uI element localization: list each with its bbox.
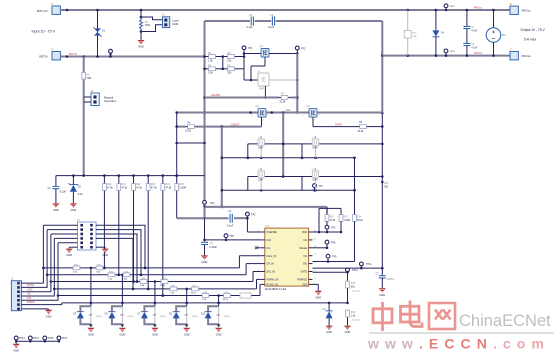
wire TVS row [219, 302, 348, 305]
transistor Q7 DNP [258, 71, 270, 91]
svg-text:(DNP): (DNP) [128, 316, 134, 318]
wire J5 fanout [21, 225, 77, 304]
test point TP11 [360, 262, 373, 268]
wire pin11 row PWRGD [313, 267, 384, 270]
test point TP2 on input rail [109, 49, 113, 58]
connector J4 shunt header [77, 219, 96, 250]
svg-text:GND: GND [88, 332, 94, 336]
diode D9 clamp 24V [169, 289, 198, 328]
ground below C9 [52, 203, 59, 212]
wire signal row CHG [43, 267, 239, 270]
svg-text:VDD: VDD [302, 230, 308, 234]
svg-text:750k: 750k [145, 24, 151, 27]
resistor R30 1.0k [73, 265, 80, 274]
wire signal row PCHG [58, 293, 260, 298]
wire TP4 row to divider [205, 207, 328, 215]
svg-text:TP4: TP4 [210, 202, 215, 205]
wire Q3 gate drop [313, 117, 358, 127]
resistor R9 51k [226, 65, 244, 75]
connector J3 Load GND [162, 14, 179, 28]
svg-text:0.1µF: 0.1µF [227, 225, 234, 228]
svg-text:VSS: VSS [302, 283, 307, 287]
svg-text:PCHG: PCHG [27, 284, 34, 287]
svg-text:56.2k: 56.2k [223, 299, 229, 301]
test point TP13 bottom [444, 49, 455, 56]
test point TP12 top [444, 4, 455, 10]
ground below VSS [315, 291, 322, 300]
svg-text:GND: GND [102, 253, 108, 257]
svg-text:R15: R15 [351, 283, 356, 285]
connector J6 PAOut+ [509, 3, 530, 15]
resistor R21 pull-up [117, 176, 128, 277]
svg-text:SI2114EDS-T1-E3: SI2114EDS-T1-E3 [265, 287, 287, 291]
wire Q7 row [244, 79, 258, 81]
diode D2 zener 6.2V [69, 176, 84, 204]
svg-text:GND: GND [202, 260, 208, 264]
svg-text:DNP: DNP [258, 147, 263, 150]
svg-text:NC: NC [303, 254, 307, 258]
resistor R25 divider top [175, 176, 186, 219]
wire R2 to J3 loop [141, 17, 163, 32]
svg-text:IUL: IUL [266, 246, 271, 250]
resistor R5 1.0k [205, 52, 227, 62]
svg-text:SIU: SIU [303, 262, 307, 266]
test point TP10 [346, 268, 359, 274]
resistor R8 51.0k gate [358, 121, 369, 133]
wire sense tap vertical [175, 113, 178, 177]
ground J4 left [66, 249, 73, 258]
wire manual-operation vertical bus [83, 57, 85, 176]
svg-text:P1: P1 [503, 33, 507, 37]
wire Q1 to TP2b [269, 52, 299, 55]
resistor R7 51.0k [279, 92, 290, 103]
node Q3 pin marks [303, 115, 321, 122]
node pin3 no-connect [255, 246, 261, 249]
svg-text:TP13: TP13 [450, 51, 456, 53]
diode D4 [432, 10, 444, 56]
svg-text:TP1: TP1 [248, 47, 253, 50]
svg-text:PAOut: PAOut [474, 6, 482, 10]
capacitor C14 DNP [312, 168, 318, 191]
resistor R3 750k [82, 73, 92, 81]
svg-text:CP_IN: CP_IN [266, 262, 274, 266]
ground below D6 [119, 328, 126, 337]
svg-text:47.5k: 47.5k [107, 186, 114, 189]
svg-text:51.0k: 51.0k [280, 101, 287, 104]
wire pin12 row [313, 260, 355, 263]
svg-text:(6 posit): (6 posit) [352, 289, 360, 292]
capacitor C12 DNP [258, 168, 264, 191]
ground below TP row [13, 344, 20, 353]
resistor R31 562 [96, 265, 103, 274]
ground GND below R2 [137, 40, 144, 49]
wire top input rail [60, 9, 510, 12]
svg-text:DIS: DIS [27, 297, 32, 300]
svg-text:GATE: GATE [335, 122, 342, 126]
diode D1 TVS [94, 9, 106, 57]
wire pin16 row [313, 231, 343, 234]
test point TP7 on snubber row [313, 184, 324, 192]
svg-text:Output 10 - 75 V: Output 10 - 75 V [521, 28, 546, 32]
wire power path mid [266, 111, 309, 114]
transistor Q1 [260, 45, 270, 57]
svg-text:1.0k: 1.0k [208, 59, 213, 62]
svg-text:TP11: TP11 [366, 263, 372, 266]
wire output bottom rail [382, 54, 510, 57]
svg-text:D10: D10 [201, 312, 206, 315]
wire power path left [175, 111, 258, 114]
svg-text:w w w . E C C N . c o m: w w w . E C C N . c o m [367, 336, 545, 352]
wire pin6 riser [253, 272, 261, 282]
svg-text:24V: 24V [153, 314, 157, 316]
resistor R36 1.0k [170, 286, 177, 295]
svg-text:GND: GND [13, 348, 19, 352]
wire right feed vertical thin [381, 113, 389, 268]
resistor R38 1.0k [202, 292, 209, 301]
resistor R6 51k [226, 52, 245, 62]
svg-text:GND: GND [315, 295, 321, 299]
wire Q2 gate drop [261, 117, 263, 127]
wire gate to vertical [368, 125, 384, 128]
connector J7 PAOut- [509, 48, 531, 60]
wire signal row DIS [47, 274, 246, 277]
resistor R15 51k [346, 272, 361, 304]
svg-text:GND: GND [345, 330, 351, 334]
svg-text:24V: 24V [120, 314, 124, 316]
resistor R33 562 [123, 272, 130, 281]
svg-text:GND: GND [216, 332, 222, 336]
ground below C7 [379, 288, 386, 297]
svg-text:TP3: TP3 [251, 213, 256, 216]
svg-text:TP8: TP8 [331, 241, 336, 244]
svg-text:R12: R12 [384, 183, 389, 185]
svg-text:47.5k: 47.5k [121, 186, 128, 189]
wire gate-supply rail [205, 20, 383, 22]
test point TP6 [325, 225, 336, 233]
svg-text:3300pF: 3300pF [386, 279, 394, 281]
resistor R11 divider [339, 215, 350, 232]
wire pin10 row [313, 271, 348, 273]
svg-text:24V: 24V [216, 314, 220, 316]
resistor R37 56.2k [191, 286, 199, 295]
svg-text:U1: U1 [266, 224, 270, 228]
wire Q1 gate row [244, 54, 261, 81]
svg-text:DIS_IN: DIS_IN [266, 270, 274, 274]
svg-text:BAT-N: BAT-N [69, 52, 77, 56]
svg-text:PCHG_IN: PCHG_IN [266, 283, 278, 287]
node J5 net labels [27, 284, 35, 304]
svg-text:MGate: MGate [299, 246, 307, 250]
svg-text:TP7: TP7 [319, 185, 324, 188]
svg-text:VSENSE: VSENSE [266, 230, 277, 234]
svg-text:GND: GND [71, 208, 77, 212]
ground below C5 [201, 255, 208, 264]
wire snubber row 3 [248, 175, 384, 190]
connector J1 BAT+ [37, 3, 60, 14]
svg-text:TP9: TP9 [332, 256, 337, 259]
svg-text:56.2k: 56.2k [191, 293, 197, 295]
wire VDD drop to C5 [203, 218, 206, 241]
wire HGATE bus [205, 97, 298, 99]
svg-text:6.2V: 6.2V [78, 193, 83, 196]
wire signal row IUL [51, 280, 253, 283]
connector J8 Manual Operation [84, 90, 117, 106]
diode D5 clamp 24V [73, 268, 102, 328]
test point TP7 [325, 240, 336, 248]
wire J4 pin wires [96, 225, 146, 290]
wire CSOUT row [196, 125, 262, 128]
capacitor C11 DNP [312, 136, 318, 158]
svg-text:47.5k: 47.5k [165, 186, 172, 189]
test point TP5 [224, 234, 234, 240]
svg-text:56.2k: 56.2k [357, 220, 363, 222]
svg-text:ChinaECNet: ChinaECNet [459, 312, 551, 330]
connector J2 RETN [39, 49, 60, 60]
svg-text:GND: GND [46, 314, 52, 318]
svg-text:GND: GND [326, 330, 332, 334]
test point TP3 [246, 212, 257, 219]
test point TP2b [295, 46, 306, 53]
resistor R2 [140, 9, 151, 40]
resistor R16 1.0k [346, 310, 361, 326]
test point row TP14-TP17 [14, 336, 68, 344]
svg-text:GND: GND [172, 22, 178, 26]
svg-text:BAT+IN: BAT+IN [37, 9, 47, 13]
wire signal row aux [62, 302, 220, 305]
svg-text:(DNP): (DNP) [160, 316, 166, 318]
svg-text:750k: 750k [86, 78, 92, 80]
svg-text:GND: GND [138, 45, 144, 49]
resistor R10 divider [325, 215, 336, 226]
capacitor C10 DNP [258, 136, 264, 158]
wire pin7 riser [257, 279, 261, 289]
wire HGATE vertical [296, 54, 299, 114]
ground below D5 [87, 328, 94, 337]
wire J4 left ground stub [69, 247, 77, 248]
wire pin14 row [313, 247, 329, 250]
svg-text:TP5: TP5 [230, 235, 235, 238]
connector J5 control input [11, 278, 21, 311]
capacitor C5 0.33uF [201, 242, 218, 255]
svg-text:GND: GND [152, 332, 158, 336]
diode D10 clamp 24V [201, 296, 230, 328]
svg-text:CHG: CHG [27, 288, 33, 291]
ground below D8 [326, 326, 333, 335]
svg-text:GND: GND [53, 208, 59, 212]
wire snubber row 1 [248, 143, 384, 158]
capacitor C1 4.7uF [463, 10, 477, 43]
wire J5 ground stub [21, 308, 48, 311]
op-amp U1 controller IC [258, 224, 317, 291]
resistor R24 pull-up [161, 176, 172, 297]
capacitor C6 0.1uF [247, 14, 254, 29]
svg-text:CHG_IN: CHG_IN [266, 254, 276, 258]
svg-text:R16: R16 [351, 312, 356, 314]
svg-text:(DNP): (DNP) [96, 316, 102, 318]
wire Q1 source jog [250, 57, 265, 81]
svg-text:GND: GND [184, 332, 190, 336]
diode D8 TVS [323, 303, 333, 326]
svg-text:0.1µF: 0.1µF [60, 191, 67, 194]
resistor R23 pull-up [146, 176, 157, 291]
svg-text:24V: 24V [89, 314, 93, 316]
wire pin8 riser [259, 284, 262, 295]
wire snubber row 4 [222, 189, 356, 192]
wire bottom input rail [60, 55, 204, 58]
svg-text:51.0k: 51.0k [358, 130, 365, 133]
svg-text:Input 10 - 75 V: Input 10 - 75 V [32, 29, 56, 33]
wire Q7 to HGATE branch [264, 79, 299, 99]
svg-text:PAOut: PAOut [522, 9, 531, 13]
svg-text:TP12: TP12 [450, 6, 456, 8]
wire signal row PWRN [54, 288, 256, 291]
capacitor C7 3300pF [376, 268, 395, 288]
svg-text:DNP: DNP [412, 36, 417, 38]
resistor R32 1.0k [108, 272, 115, 281]
svg-text:24V: 24V [184, 314, 188, 316]
svg-text:Operation: Operation [104, 99, 117, 103]
svg-text:R11: R11 [344, 216, 349, 218]
svg-text:TP17: TP17 [62, 337, 68, 340]
svg-text:TP14: TP14 [19, 337, 25, 340]
wire left gate-drive vertical [203, 21, 206, 220]
svg-text:5-A max: 5-A max [524, 38, 536, 42]
svg-text:DNP: DNP [313, 179, 318, 182]
svg-text:TP15: TP15 [33, 337, 39, 340]
wire upper divider link [319, 208, 341, 232]
capacitor C4 0.1uF [227, 210, 234, 227]
test point TP9 [326, 254, 337, 261]
resistor R34 1.0k [140, 278, 147, 287]
svg-text:0.33µF: 0.33µF [210, 246, 218, 249]
ground J5 [45, 310, 52, 319]
svg-text:LD1: LD1 [286, 108, 291, 112]
svg-text:CSOUT: CSOUT [231, 122, 240, 126]
svg-text:1.00M: 1.00M [344, 220, 350, 222]
svg-text:PWRN_IN: PWRN_IN [266, 278, 278, 282]
svg-text:4.7µF: 4.7µF [471, 47, 478, 49]
wire J4 right ground stub [96, 247, 105, 248]
svg-text:TP10: TP10 [352, 269, 358, 272]
svg-text:IUD: IUD [266, 238, 271, 242]
svg-text:DNP: DNP [259, 88, 264, 91]
svg-text:47.5k: 47.5k [136, 186, 143, 189]
wire bias bus [56, 174, 205, 177]
node Output label [521, 28, 546, 42]
svg-text:(6 posit): (6 posit) [352, 318, 360, 321]
wire CSOUT feedback vertical [221, 127, 224, 209]
resistor R39 56.2k [223, 292, 231, 301]
resistor R35 56.2k [160, 278, 168, 287]
transistor Q2 [256, 105, 267, 117]
resistor R22 pull-up [132, 176, 143, 283]
svg-text:R10: R10 [330, 216, 335, 218]
svg-text:PAOut-: PAOut- [474, 51, 482, 55]
svg-text:GND: GND [120, 332, 126, 336]
wire right feed vertical bold [381, 21, 384, 113]
wire pin5 riser [246, 264, 261, 275]
svg-text:0.1µF: 0.1µF [247, 26, 254, 29]
test point TP4 [203, 200, 215, 208]
transistor Q3 [307, 105, 318, 117]
wire R6-R9 tie [222, 57, 224, 69]
ground below D9 [183, 328, 190, 337]
svg-text:GND: GND [66, 253, 72, 257]
resistor Rs 0.010 sense [175, 121, 196, 132]
svg-text:RETN: RETN [39, 55, 47, 59]
svg-text:PAOut-: PAOut- [522, 54, 532, 58]
svg-text:4.7µF: 4.7µF [471, 30, 478, 32]
svg-text:1.00M: 1.00M [179, 186, 186, 189]
load source P1 [486, 10, 506, 56]
svg-text:PWRGD: PWRGD [297, 278, 307, 282]
svg-text:GATE: GATE [300, 270, 307, 274]
wire VSS to ground [313, 284, 319, 290]
test point TP1 [242, 46, 253, 55]
resistor R4 1.0k [203, 65, 226, 75]
wire mid column R14 [353, 158, 356, 215]
resistor R20 pull-up [103, 176, 114, 270]
wire power path right [317, 112, 384, 115]
svg-text:R14: R14 [357, 216, 362, 218]
wire sense link row [175, 142, 205, 145]
diode D7 clamp 24V [137, 282, 166, 328]
wire C4 row [177, 217, 248, 219]
svg-text:1.0k: 1.0k [208, 72, 213, 75]
wire pin2 row [205, 239, 261, 242]
svg-text:0.1µF: 0.1µF [268, 26, 275, 29]
svg-text:TP6: TP6 [331, 227, 336, 230]
wire pin4 riser [239, 256, 260, 268]
ground below D7 [151, 328, 158, 337]
wire mid node vertical [282, 113, 285, 178]
wire TP3 to pin1 [247, 218, 260, 232]
svg-text:NC: NC [303, 238, 307, 242]
svg-text:TP16: TP16 [48, 337, 54, 340]
ground below D2 [70, 203, 77, 212]
svg-text:TP2: TP2 [301, 47, 306, 50]
capacitor C2 4.7uF [463, 43, 477, 55]
svg-text:DNP: DNP [313, 147, 318, 150]
svg-text:(DNP): (DNP) [224, 316, 230, 318]
resistor R17 DNP [404, 10, 417, 56]
svg-text:56.2k: 56.2k [160, 285, 166, 287]
wire output top rail continuation [406, 9, 494, 12]
diode D6 clamp 24V [105, 275, 134, 328]
svg-text:(DNP): (DNP) [192, 316, 198, 318]
svg-text:47.5k: 47.5k [330, 220, 336, 222]
svg-text:DNP: DNP [258, 179, 263, 182]
ground J4 right [102, 249, 109, 258]
ground below D10 [215, 328, 222, 337]
svg-text:0.010: 0.010 [185, 129, 192, 132]
svg-text:GND: GND [379, 293, 385, 297]
capacitor C9 0.1uF [47, 176, 66, 204]
node Q2 pin marks [252, 115, 270, 122]
svg-text:D1: D1 [102, 29, 106, 33]
svg-text:IUL: IUL [27, 293, 32, 296]
wire snubber row 2 [222, 157, 356, 160]
ground below R16 [344, 326, 351, 335]
svg-text:47.5k: 47.5k [151, 186, 158, 189]
capacitor C8 0.1uF [268, 14, 275, 29]
resistor R14 56.2k [353, 215, 364, 262]
svg-text:PWRN: PWRN [27, 301, 35, 304]
watermark ECCN [367, 301, 554, 352]
